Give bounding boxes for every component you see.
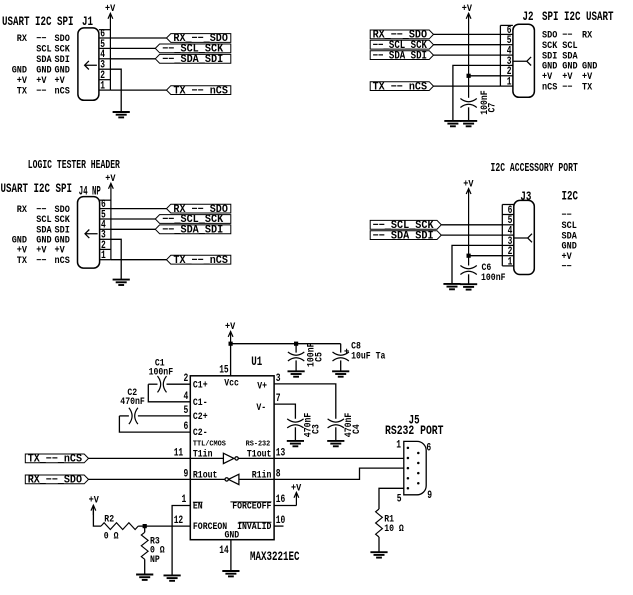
capacitor C5 bbox=[288, 352, 304, 361]
connector J1 orientation arrow bbox=[85, 61, 97, 70]
svg-text:15: 15 bbox=[219, 364, 229, 376]
net flag --_SDA_SDI (J4.4) bbox=[155, 225, 231, 237]
wire J1 pin 6 to RX flag bbox=[110, 37, 166, 39]
wire J1 pin 1 to TX flag bbox=[110, 89, 166, 91]
svg-text:C1+: C1+ bbox=[193, 379, 208, 390]
svg-text:SDO: SDO bbox=[55, 33, 70, 44]
wire TX flag to U1 pin 11 and into T1 buffer bbox=[89, 457, 224, 459]
wire R3 to ground bbox=[144, 559, 146, 574]
svg-text:SDI: SDI bbox=[55, 54, 70, 65]
svg-text:−−: −− bbox=[562, 261, 572, 272]
wire J4 pin 6 to RX flag bbox=[111, 208, 167, 210]
svg-text:C7: C7 bbox=[487, 103, 498, 113]
J2 pin numbers 6-1 bbox=[507, 25, 512, 89]
wire C6 to ground bbox=[468, 274, 470, 284]
svg-text:nCS: nCS bbox=[55, 85, 70, 96]
wire U1 pin 3 (V+) to C4 bbox=[274, 384, 336, 419]
wire R2 to junction to U1 pin 12 (FORCEON) bbox=[138, 525, 190, 527]
svg-text:RS232 PORT: RS232 PORT bbox=[385, 424, 444, 438]
power +V at J3 pin 2 bbox=[463, 178, 473, 265]
net flag --_SCL_SCK (J3.5) bbox=[370, 220, 441, 232]
wire R1 to ground bbox=[378, 537, 380, 552]
ground below C4 bbox=[327, 441, 344, 446]
svg-text:−−: −− bbox=[36, 85, 46, 96]
junction +V rail / Vcc bbox=[229, 342, 233, 346]
wire +V rail to C5 and C8 bbox=[231, 343, 341, 345]
svg-text:+V: +V bbox=[36, 75, 46, 86]
svg-text:SDA: SDA bbox=[36, 54, 51, 65]
ground below U1 bbox=[222, 571, 239, 576]
J4 pin ladder bbox=[100, 200, 111, 260]
svg-text:1: 1 bbox=[507, 77, 512, 89]
svg-text:9: 9 bbox=[184, 468, 189, 480]
svg-text:TX: TX bbox=[17, 85, 27, 96]
svg-text:3: 3 bbox=[276, 373, 281, 385]
svg-text:R1in: R1in bbox=[252, 469, 272, 480]
buffer T1 (transmit driver) bbox=[223, 453, 238, 463]
ground below J3 pin 3 bbox=[443, 284, 460, 289]
svg-text:GND: GND bbox=[582, 61, 597, 72]
connector J1 body bbox=[78, 28, 99, 100]
wire C2 loop down to pin 6 bbox=[119, 416, 190, 432]
svg-text:RX: RX bbox=[17, 33, 27, 44]
J3 pin numbers 6-1 bbox=[508, 205, 513, 268]
wire +V down to R2 bbox=[93, 505, 101, 526]
svg-text:RX: RX bbox=[582, 30, 592, 41]
svg-text:GND: GND bbox=[36, 64, 51, 75]
connector J2 body bbox=[513, 24, 535, 97]
svg-text:10uF Ta: 10uF Ta bbox=[351, 351, 385, 362]
capacitor C4 bbox=[328, 419, 344, 428]
svg-text:−−_SDA_SDI: −−_SDA_SDI bbox=[373, 50, 427, 62]
wire C8 to ground bbox=[340, 360, 342, 371]
wire J1 pin 4 to SDA flag bbox=[110, 58, 155, 60]
wire J2 pin 3 to ground bbox=[453, 65, 501, 121]
capacitor C3 bbox=[287, 419, 303, 428]
connector J4 body bbox=[78, 197, 100, 269]
svg-text:TX_−−_nCS: TX_−−_nCS bbox=[173, 255, 228, 267]
ground below J4 bbox=[113, 280, 130, 285]
svg-text:+V: +V bbox=[105, 173, 115, 184]
resistor R1 bbox=[376, 509, 383, 537]
svg-text:SCL: SCL bbox=[36, 44, 51, 55]
power +V at J1 pin 2 bbox=[105, 3, 115, 90]
svg-text:14: 14 bbox=[219, 545, 229, 557]
svg-text:13: 13 bbox=[276, 447, 286, 459]
net flag --_SDA_SDI (J1.4) bbox=[155, 54, 231, 66]
svg-text:C2+: C2+ bbox=[193, 411, 208, 422]
wire RX flag to J2 pin 6 bbox=[434, 33, 501, 35]
capacitor C2 bbox=[129, 408, 138, 424]
svg-text:1: 1 bbox=[101, 250, 106, 262]
svg-text:470nF: 470nF bbox=[120, 396, 145, 407]
wire rail to C5 top bbox=[295, 344, 297, 353]
junction rail / C5 bbox=[294, 342, 298, 346]
connector J3 body bbox=[514, 200, 535, 274]
wire C3 to ground bbox=[294, 427, 296, 441]
svg-text:SPI I2C USART: SPI I2C USART bbox=[542, 10, 614, 24]
svg-text:SCK: SCK bbox=[55, 44, 70, 55]
svg-text:4: 4 bbox=[184, 391, 189, 403]
wire SDA flag to J2 pin 4 bbox=[434, 54, 501, 56]
junction R2 / R3 / FORCEON bbox=[143, 524, 147, 528]
wire C1 to U1 pin 2 bbox=[167, 383, 191, 385]
svg-text:−−_SDA_SDI: −−_SDA_SDI bbox=[373, 230, 434, 242]
power +V at R2 bbox=[89, 495, 99, 515]
svg-text:10 Ω: 10 Ω bbox=[384, 523, 404, 534]
svg-text:+V: +V bbox=[462, 3, 472, 14]
svg-text:USART I2C SPI: USART I2C SPI bbox=[1, 182, 73, 196]
svg-text:Vcc: Vcc bbox=[224, 377, 239, 388]
svg-text:I2C: I2C bbox=[562, 190, 579, 204]
svg-text:C4: C4 bbox=[351, 424, 362, 434]
J1 pin ladder bbox=[99, 30, 111, 90]
net flag --_SCL_SCK (J1.5) bbox=[155, 44, 231, 56]
ground below C5 bbox=[288, 371, 305, 376]
svg-text:RX: RX bbox=[17, 204, 27, 215]
ground below C8 bbox=[332, 371, 349, 376]
U1 pin 10 INVALID overline bbox=[239, 521, 272, 523]
svg-text:J1: J1 bbox=[82, 15, 93, 29]
capacitor C1 bbox=[158, 376, 167, 392]
svg-text:J2: J2 bbox=[523, 10, 534, 24]
J5 DB9 pin dots bbox=[407, 447, 420, 490]
svg-text:1: 1 bbox=[508, 256, 513, 268]
wire U1 pin2 (C1+) left segment bbox=[148, 383, 157, 385]
wire junction down to R3 bbox=[144, 526, 146, 532]
power +V above U1 bbox=[225, 321, 235, 344]
svg-text:I2C ACCESSORY PORT: I2C ACCESSORY PORT bbox=[491, 162, 578, 175]
svg-text:nCS: nCS bbox=[55, 255, 70, 266]
svg-text:J3: J3 bbox=[520, 190, 531, 204]
svg-text:TX_−−_nCS: TX_−−_nCS bbox=[373, 81, 428, 93]
svg-text:R2: R2 bbox=[104, 514, 114, 525]
J2 pin ladder bbox=[500, 25, 513, 86]
svg-text:FORCEON: FORCEON bbox=[193, 521, 227, 532]
svg-text:GND: GND bbox=[55, 64, 70, 75]
svg-text:7: 7 bbox=[276, 393, 281, 405]
svg-text:2: 2 bbox=[184, 373, 189, 385]
ground below R1 bbox=[370, 552, 387, 557]
svg-text:GND: GND bbox=[12, 64, 27, 75]
svg-text:C5: C5 bbox=[313, 352, 324, 362]
svg-text:−−: −− bbox=[36, 204, 46, 215]
wire J4 pin 1 to TX flag bbox=[111, 259, 167, 261]
svg-text:0 Ω: 0 Ω bbox=[104, 531, 119, 542]
wire TX flag to J2 pin 1 bbox=[434, 85, 501, 87]
wire SCL flag to J2 pin 5 bbox=[434, 44, 501, 46]
ground below C6 bbox=[460, 284, 477, 289]
wire J3 pin 3 to ground bbox=[452, 245, 502, 284]
wire J5 pin 5 to R1 bbox=[379, 488, 404, 509]
svg-text:GND: GND bbox=[225, 530, 240, 541]
wire T1 buffer to U1 pin 13 / T1out to J5 pin 2 bbox=[238, 457, 403, 459]
svg-text:−−_SDA_SDI: −−_SDA_SDI bbox=[162, 54, 223, 66]
svg-text:−−: −− bbox=[562, 81, 572, 92]
svg-text:TTL/CMOS: TTL/CMOS bbox=[193, 441, 226, 449]
svg-text:10: 10 bbox=[276, 515, 286, 527]
resistor R2 bbox=[101, 523, 138, 530]
C8 plus sign bbox=[344, 349, 348, 353]
svg-text:SCK: SCK bbox=[542, 40, 557, 51]
net flag --_SCL_SCK (J4.5) bbox=[155, 214, 231, 226]
ground below J2 pin 3 bbox=[444, 121, 461, 126]
J3 pin ladder bbox=[502, 205, 514, 266]
svg-text:+V: +V bbox=[17, 75, 27, 86]
wire C2 to U1 pin 5 bbox=[138, 415, 190, 417]
svg-text:100nF: 100nF bbox=[149, 366, 174, 377]
connector J3 orientation arrow bbox=[514, 234, 532, 243]
svg-text:16: 16 bbox=[276, 494, 286, 506]
wire J1 pin 5 to SCL flag bbox=[110, 47, 155, 49]
wire U1 pin 1 (EN) to ground bbox=[172, 506, 190, 576]
IC U1 body bbox=[190, 376, 274, 540]
U1 pin 1 EN overline bbox=[193, 501, 203, 503]
svg-text:TX: TX bbox=[17, 255, 27, 266]
svg-text:5: 5 bbox=[397, 494, 402, 506]
svg-text:SCL: SCL bbox=[562, 40, 577, 51]
capacitor C7 bbox=[460, 99, 476, 108]
svg-text:MAX3221EC: MAX3221EC bbox=[250, 550, 300, 564]
wire C4 to ground bbox=[335, 427, 337, 441]
svg-text:−−: −− bbox=[36, 33, 46, 44]
wire SDA flag to J3 pin 4 bbox=[441, 234, 502, 236]
wire J3 pin 2 to +V bbox=[469, 255, 503, 257]
svg-text:6: 6 bbox=[184, 421, 189, 433]
svg-text:RS-232: RS-232 bbox=[246, 441, 271, 449]
svg-text:INVALID: INVALID bbox=[237, 521, 271, 532]
svg-text:100nF: 100nF bbox=[481, 272, 506, 283]
svg-text:1: 1 bbox=[182, 494, 187, 506]
svg-text:RX_−−_SDO: RX_−−_SDO bbox=[28, 475, 83, 487]
capacitor C6 bbox=[460, 266, 476, 275]
svg-text:TX_−−_nCS: TX_−−_nCS bbox=[173, 85, 228, 97]
svg-text:R1out: R1out bbox=[193, 469, 218, 480]
power +V at J4 pin 2 bbox=[105, 173, 115, 260]
svg-text:+V: +V bbox=[55, 75, 65, 86]
J1 pin function labels bbox=[12, 33, 70, 96]
svg-text:U1: U1 bbox=[251, 355, 262, 369]
svg-text:5: 5 bbox=[184, 405, 189, 417]
power +V at J2 pin 2 bbox=[462, 3, 472, 98]
net flag --_SCL_SCK (J2.5) bbox=[370, 40, 433, 52]
power +V at FORCEOFF bbox=[291, 483, 301, 506]
wire U1 pin5 (C2+) left segment bbox=[119, 415, 128, 417]
buffer R1 (receiver) bbox=[225, 474, 239, 484]
svg-text:+V: +V bbox=[89, 495, 99, 506]
svg-text:GND: GND bbox=[562, 61, 577, 72]
ground below R3 bbox=[136, 575, 153, 580]
J2 pin function labels bbox=[542, 30, 597, 93]
svg-text:8: 8 bbox=[276, 468, 281, 480]
connector J5 DB9 body bbox=[404, 441, 426, 494]
J1 pin numbers 6-1 bbox=[100, 28, 105, 92]
wire U1 pin 16 (FORCEOFF) to +V bbox=[274, 505, 296, 507]
svg-text:TX_−−_nCS: TX_−−_nCS bbox=[28, 454, 83, 466]
svg-text:V+: V+ bbox=[257, 381, 267, 392]
svg-text:9: 9 bbox=[427, 490, 432, 502]
connector J4 orientation arrow bbox=[85, 230, 98, 239]
svg-text:−−_SDA_SDI: −−_SDA_SDI bbox=[162, 225, 223, 237]
wire rail to C8 top bbox=[340, 344, 342, 353]
svg-text:−−: −− bbox=[36, 255, 46, 266]
ground below C7 bbox=[460, 121, 477, 126]
wire U1 pin 14 (GND) to ground bbox=[230, 540, 232, 571]
svg-text:nCS: nCS bbox=[542, 81, 557, 92]
svg-text:1: 1 bbox=[396, 439, 401, 451]
wire C5 to ground bbox=[295, 360, 297, 371]
svg-text:C1-: C1- bbox=[193, 397, 208, 408]
ground below J1 bbox=[113, 112, 130, 117]
svg-text:NP: NP bbox=[150, 554, 160, 565]
wire J4 pin 4 to SDA flag bbox=[111, 228, 155, 230]
svg-text:USART I2C SPI: USART I2C SPI bbox=[2, 15, 74, 29]
net flag --_SDA_SDI (J2.4) bbox=[370, 50, 433, 62]
junction +V / J3 pin 2 / C6 bbox=[467, 254, 471, 258]
wire J4 pin 3 to ground bbox=[111, 239, 121, 279]
J4 pin function labels bbox=[12, 204, 70, 266]
svg-text:TX: TX bbox=[582, 81, 592, 92]
ground below EN bbox=[164, 575, 181, 580]
wire SCL flag to J3 pin 5 bbox=[441, 224, 502, 226]
svg-text:+V: +V bbox=[225, 321, 235, 332]
wire +V rail to U1 pin 15 (Vcc) bbox=[230, 344, 232, 376]
J4 pin numbers 6-1 bbox=[101, 199, 106, 262]
svg-text:11: 11 bbox=[174, 447, 184, 459]
J3 pin function labels bbox=[562, 210, 577, 272]
capacitor C8 (polarized) bbox=[333, 352, 349, 361]
svg-text:C2-: C2- bbox=[193, 427, 208, 438]
svg-text:GND: GND bbox=[542, 61, 557, 72]
svg-text:12: 12 bbox=[174, 515, 184, 527]
svg-text:LOGIC TESTER HEADER: LOGIC TESTER HEADER bbox=[28, 159, 120, 172]
wire U1 pin 7 (V-) to C3 bbox=[274, 404, 295, 419]
resistor R3 bbox=[141, 532, 148, 559]
U1 pin 10 stub (unconnected INVALID) bbox=[274, 525, 283, 527]
wire C1 loop down to pin 4 bbox=[148, 384, 190, 402]
wire RX flag to U1 pin 9 (R1out) bbox=[89, 478, 226, 480]
junction +V / J2 pin 2 / C7 bbox=[467, 74, 471, 78]
connector J2 orientation arrow bbox=[513, 57, 531, 66]
svg-text:C3: C3 bbox=[310, 424, 321, 434]
svg-text:1: 1 bbox=[100, 81, 105, 93]
wire C7 to ground bbox=[468, 107, 470, 121]
wire J1 pin 3 to ground bbox=[110, 69, 121, 112]
ground below C3 bbox=[287, 441, 304, 446]
svg-text:V-: V- bbox=[256, 402, 266, 413]
wire J2 pin 2 to +V bbox=[469, 75, 501, 77]
wire R1 buffer to U1 pin 8 / R1in to J5 pin 3 bbox=[239, 468, 404, 479]
wire J4 pin 5 to SCL flag bbox=[111, 218, 155, 220]
U1 pin 16 FORCEOFF overline bbox=[230, 501, 271, 503]
svg-text:SDO: SDO bbox=[55, 204, 70, 215]
svg-text:6: 6 bbox=[426, 442, 431, 454]
net flag --_SDA_SDI (J3.4) bbox=[370, 230, 441, 242]
